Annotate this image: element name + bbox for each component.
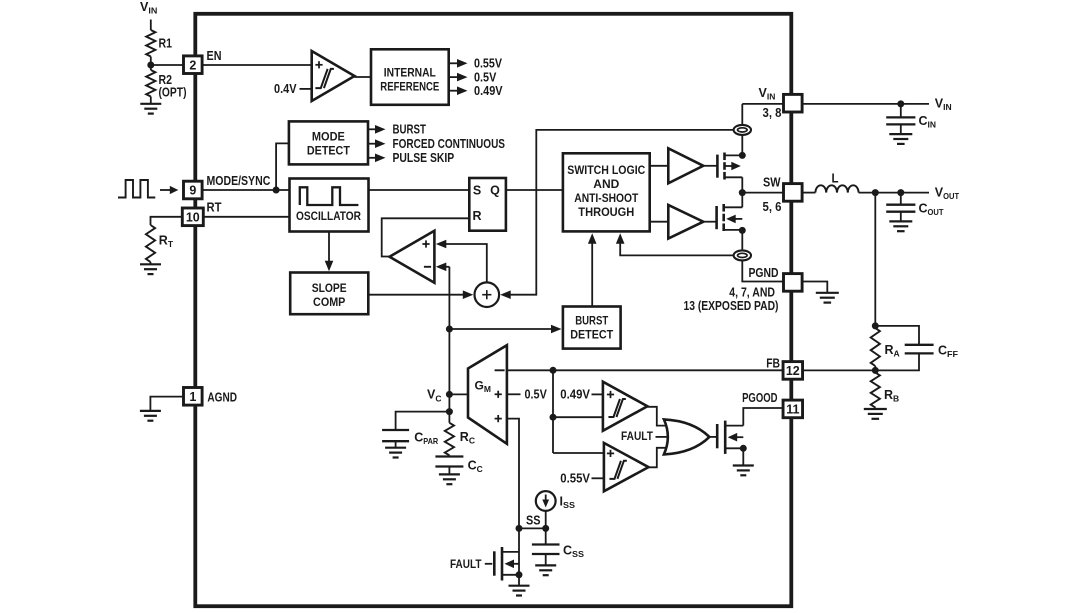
plus input sign U5 — [607, 452, 614, 454]
svg-text:SLOPE: SLOPE — [312, 282, 347, 295]
junction Q4 source node — [516, 571, 523, 578]
ground below CPAR — [385, 447, 406, 449]
junction FB branch node — [550, 367, 557, 374]
resistor R1 — [146, 30, 155, 57]
pin 9 (MODE/SYNC) — [184, 181, 203, 199]
wire inductor to VOUT — [859, 192, 929, 194]
plus sign summing junction — [482, 294, 491, 296]
block BURST DETECT — [563, 307, 621, 349]
svg-text:9: 9 — [189, 184, 196, 198]
wire pin 2 to EN comparator — [202, 64, 312, 66]
wire RC to CC — [448, 455, 450, 456]
wire switch logic to bottom gate driver — [650, 221, 669, 223]
wire VIN rail to Q1 — [741, 104, 743, 126]
wire GM middle input 0.5V stub — [507, 393, 521, 395]
op-amp U1 EN comparator — [312, 51, 355, 101]
svg-text:0.5V: 0.5V — [474, 70, 497, 84]
svg-text:RT: RT — [207, 200, 222, 214]
hysteresis symbol U1 — [315, 69, 327, 88]
wire to CPAR — [396, 412, 450, 430]
wire FB to U5 upper input — [553, 452, 604, 454]
svg-text:5, 6: 5, 6 — [763, 200, 782, 214]
wire SW pin to inductor — [802, 192, 815, 194]
plus input sign GM lower — [495, 418, 502, 420]
svg-text:0.49V: 0.49V — [560, 388, 590, 402]
wire VC vertical line — [448, 267, 450, 412]
capacitor CIN — [886, 116, 915, 118]
wire FB branch down — [552, 370, 554, 453]
transistor Q3 PGOOD NMOS — [716, 424, 719, 448]
svg-text:MODE/SYNC: MODE/SYNC — [207, 174, 271, 188]
arrows reference outputs — [449, 62, 460, 64]
wire Q3 source to ground — [742, 448, 744, 465]
wire CPAR to ground — [395, 441, 397, 447]
svg-text:FORCED CONTINUOUS: FORCED CONTINUOUS — [393, 137, 506, 151]
current sense top ellipse — [734, 125, 751, 135]
ground below CIN — [889, 133, 912, 135]
plus input sign U4 — [607, 394, 614, 396]
svg-text:FAULT: FAULT — [621, 429, 654, 443]
transistor Q2 bottom power NMOS — [715, 206, 718, 229]
wire VOUT node down to RA — [874, 193, 876, 328]
gate U6 OR — [664, 419, 710, 454]
wire SW to Q2 drain — [741, 193, 743, 208]
wire switch logic to top gate driver — [650, 165, 669, 167]
block OSCILLATOR — [290, 179, 369, 232]
ground below CSS — [535, 564, 556, 566]
svg-text:MODE: MODE — [312, 131, 345, 144]
resistor R2 — [146, 70, 155, 97]
ground below CC — [439, 473, 460, 475]
junction FB branch to comparators — [550, 414, 557, 421]
wire bottom current sense to switch logic — [620, 241, 734, 255]
wire 0.55V stub — [592, 477, 604, 479]
junction VC branch to burst detect — [446, 326, 453, 333]
wire CFF loop — [875, 326, 919, 345]
wire pin 10 to oscillator — [202, 216, 289, 218]
ground PGND — [816, 292, 839, 294]
svg-text:3, 8: 3, 8 — [763, 106, 782, 120]
svg-text:COMP: COMP — [313, 296, 346, 309]
wire FAULT label stub — [485, 563, 493, 565]
svg-text:SWITCH LOGIC: SWITCH LOGIC — [567, 164, 646, 177]
arrows mode detect outputs — [368, 128, 378, 130]
wire SS to CSS — [545, 528, 547, 544]
wire COUT to ground — [900, 212, 902, 222]
wire PWM comparator output to latch R — [382, 218, 470, 256]
current sense bottom ellipse — [734, 250, 751, 260]
resistor RB — [874, 370, 876, 372]
pin VIN (3,8) — [784, 94, 803, 112]
svg-text:OSCILLATOR: OSCILLATOR — [296, 209, 361, 223]
junction CIN node — [897, 100, 904, 107]
svg-text:S: S — [473, 183, 481, 197]
inductor L — [815, 185, 858, 192]
svg-text:FB: FB — [766, 357, 780, 371]
pin PGND (4,7,13) — [784, 274, 803, 292]
junction SS left — [516, 525, 523, 532]
svg-text:PULSE SKIP: PULSE SKIP — [393, 151, 455, 165]
transistor Q4 FAULT NMOS — [493, 551, 496, 575]
svg-text:1: 1 — [189, 390, 196, 404]
wire FB line into GM minus input — [507, 369, 784, 371]
wire VIN pin to Q1 chain — [742, 103, 783, 105]
wire U5 output to OR gate — [649, 448, 667, 468]
wire slope comp to summing junction — [368, 294, 463, 296]
wire pin 10 to RT resistor — [151, 217, 184, 225]
ground below Q3 — [733, 464, 754, 466]
block INTERNAL REFERENCE — [371, 49, 449, 105]
wire bottom driver to Q2 gate — [703, 221, 716, 223]
wire sense to Q1 drain — [741, 134, 743, 155]
svg-text:0.55V: 0.55V — [474, 57, 503, 71]
svg-text:2: 2 — [189, 58, 196, 72]
IC outline border — [195, 14, 791, 606]
wire PGND pin to ground — [802, 282, 827, 293]
ground below COUT — [889, 220, 912, 222]
current source ISS — [536, 491, 556, 511]
op-amp U4 overvoltage comparator — [603, 382, 648, 431]
wire CIN stub — [900, 104, 902, 118]
wire 0.49V stub — [592, 393, 603, 395]
wire latch Q to switch logic — [506, 189, 563, 191]
junction RA top node — [872, 322, 879, 329]
pin SW (5,6) — [784, 184, 803, 202]
svg-text:(OPT): (OPT) — [159, 86, 187, 100]
wire CIN to ground — [900, 124, 902, 133]
svg-text:AGND: AGND — [207, 390, 237, 404]
resistor RA — [871, 328, 880, 366]
op-amp GM error amplifier — [468, 345, 507, 444]
svg-text:EN: EN — [207, 49, 222, 63]
block SWITCH LOGIC AND ANTI-SHOOT THROUGH — [563, 153, 650, 231]
arrow clock into pin 9 — [160, 189, 171, 191]
minus input sign GM — [495, 369, 505, 371]
pin 12 (FB) — [783, 362, 803, 380]
svg-text:0.55V: 0.55V — [560, 472, 590, 486]
wire SW node to SW pin — [742, 192, 783, 194]
junction SS right — [542, 525, 549, 532]
ground below RB — [864, 408, 887, 410]
svg-text:10: 10 — [186, 210, 200, 224]
junction FB node — [872, 367, 879, 374]
svg-text:12: 12 — [786, 364, 800, 378]
junction MODE/SYNC node — [273, 187, 280, 194]
svg-text:R: R — [472, 209, 481, 223]
buffer bottom gate driver — [668, 205, 703, 239]
transistor Q1 top power PMOS — [716, 155, 719, 178]
wire U1 output to internal reference — [355, 76, 372, 78]
wire oscillator to latch S — [369, 189, 470, 191]
wire COUT stub — [900, 193, 902, 205]
wire GM lower input to SS — [507, 419, 519, 529]
wire R1 to R2 — [150, 57, 152, 71]
capacitor CC — [435, 455, 463, 457]
svg-text:THROUGH: THROUGH — [578, 206, 634, 219]
junction VC node — [446, 391, 453, 398]
wire OR gate to Q3 gate — [709, 436, 717, 438]
ground below RT — [140, 263, 161, 265]
minus input sign U3 — [424, 266, 431, 268]
wire mode detect input from MODE/SYNC — [276, 143, 289, 190]
wire Q2 source to bottom sense — [741, 230, 743, 251]
wire R2 to ground — [150, 97, 152, 104]
svg-text:FAULT: FAULT — [450, 557, 482, 571]
svg-text:11: 11 — [786, 403, 799, 417]
block SR latch U2 — [469, 178, 506, 231]
block MODE DETECT — [289, 121, 368, 164]
wire top current sense to summing junction — [510, 130, 734, 295]
svg-text:SW: SW — [763, 175, 781, 189]
plus input sign GM middle — [495, 393, 502, 395]
oscillator waveform glyph — [300, 187, 359, 205]
svg-text:R1: R1 — [159, 37, 173, 51]
svg-text:SS: SS — [526, 514, 541, 528]
summing junction node — [475, 282, 500, 307]
svg-text:DETECT: DETECT — [570, 328, 613, 341]
arrow oscillator to slope comp — [328, 232, 330, 264]
wire FAULT into OR gate — [656, 436, 669, 438]
resistor RT — [146, 225, 155, 262]
junction Q3 source node — [740, 445, 747, 452]
resistor RC — [448, 412, 450, 423]
wire VC node to GM — [449, 393, 468, 395]
ground below R2 — [140, 103, 161, 105]
svg-text:INTERNAL: INTERNAL — [384, 67, 436, 80]
capacitor CFF — [905, 344, 934, 346]
capacitor CPAR — [382, 429, 409, 431]
buffer top gate driver — [668, 148, 703, 183]
svg-text:L: L — [832, 172, 839, 186]
svg-text:BURST: BURST — [393, 123, 427, 137]
svg-text:DETECT: DETECT — [307, 145, 350, 158]
wire CC to ground — [448, 467, 450, 475]
wire FB pin to divider — [802, 369, 875, 371]
wire FB to U4 lower input — [553, 416, 603, 418]
junction SW node — [739, 189, 746, 196]
wire ISS to SS node — [545, 511, 547, 529]
wire 0.4V stub — [300, 88, 312, 90]
plus input sign U3 — [422, 243, 429, 245]
wire VIN to R1 — [150, 20, 152, 31]
ground below Q4 — [509, 585, 530, 587]
wire RT to ground — [150, 262, 152, 264]
svg-text:Q: Q — [490, 183, 500, 197]
pin 2 (EN) — [184, 56, 203, 74]
wire CSS to ground — [545, 554, 547, 565]
junction compensation node — [446, 408, 453, 415]
svg-text:BURST: BURST — [575, 314, 608, 327]
svg-text:REFERENCE: REFERENCE — [380, 81, 439, 94]
wire VC line to U3 minus input — [445, 266, 449, 268]
svg-text:0.49V: 0.49V — [474, 84, 503, 98]
junction Q2 source node — [739, 227, 746, 234]
hysteresis symbol U5 — [609, 461, 621, 479]
wire divider node to pin 2 — [151, 64, 184, 66]
wire pin 1 to ground — [150, 397, 183, 411]
svg-text:13 (EXPOSED PAD): 13 (EXPOSED PAD) — [684, 299, 779, 313]
wire SS to Q4 drain — [518, 528, 520, 576]
capacitor CSS — [532, 543, 560, 545]
svg-text:0.5V: 0.5V — [525, 388, 548, 402]
svg-text:PGND: PGND — [749, 266, 779, 280]
op-amp U3 PWM comparator — [390, 231, 435, 283]
wire VC to burst detect — [449, 328, 552, 330]
pin 11 (PGOOD) — [783, 400, 803, 418]
capacitor COUT — [886, 204, 915, 206]
block SLOPE COMP — [290, 273, 368, 315]
op-amp U5 undervoltage comparator — [604, 443, 649, 491]
wire Q4 source to ground — [518, 575, 520, 586]
wire pin 9 to oscillator — [202, 189, 289, 191]
pin 1 (AGND) — [184, 388, 203, 406]
svg-text:0.4V: 0.4V — [274, 82, 297, 96]
wire bottom sense to PGND — [742, 260, 783, 282]
junction Q1 drain node — [739, 152, 746, 159]
junction COUT node — [897, 189, 904, 196]
ground AGND — [140, 410, 161, 412]
wire VIN pin to external rail — [802, 103, 929, 105]
plus input sign U1 — [315, 64, 322, 66]
wire U4 output to OR gate — [647, 407, 666, 426]
pin 10 (RT) — [182, 208, 203, 226]
wire Q1 source to SW — [741, 177, 743, 192]
svg-text:ANTI-SHOOT: ANTI-SHOOT — [574, 192, 638, 205]
wire Q3 drain to PGOOD pin — [743, 408, 783, 426]
junction node R1/R2/EN — [147, 62, 154, 69]
hysteresis symbol U4 — [608, 399, 620, 417]
svg-text:AND: AND — [593, 178, 619, 191]
wire summing junction to U3 plus input — [445, 244, 487, 282]
wire SS node — [519, 527, 546, 529]
arrow burst detect to switch logic — [591, 241, 593, 307]
svg-text:PGOOD: PGOOD — [742, 391, 777, 405]
junction VOUT feedback node — [872, 189, 879, 196]
wire top driver to Q1 gate — [703, 165, 717, 167]
clock waveform glyph — [118, 180, 155, 198]
svg-text:4, 7, AND: 4, 7, AND — [729, 285, 775, 299]
